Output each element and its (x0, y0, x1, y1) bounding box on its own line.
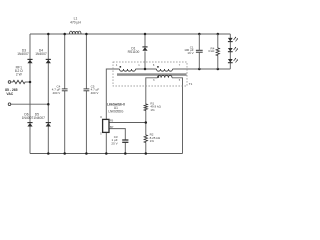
input terminal N (8, 103, 11, 106)
svg-text:RS1100: RS1100 (128, 50, 140, 54)
resistor R1 49.9k (144, 104, 147, 112)
node D4 top (47, 33, 50, 36)
wire BP pin to C3 (109, 129, 125, 140)
node C5 top (85, 33, 88, 36)
svg-text:LNK605DG: LNK605DG (108, 110, 123, 114)
node D1 anode / pins 1-8 (144, 68, 147, 71)
wire C3 to bottom bus (124, 142, 126, 153)
op IC U1 LNK605DG box (103, 119, 109, 132)
diode D5 1N4007 (46, 122, 51, 124)
wire C5 leg (85, 34, 87, 154)
wire AC line 2 (11, 103, 48, 105)
node RF1-bridge (29, 81, 32, 84)
svg-text:S: S (100, 132, 102, 136)
wire FB pin (109, 122, 146, 124)
node C1 top (198, 33, 201, 36)
wire secondary pin 6 down to R1 (146, 78, 158, 104)
wire RF1 to bridge (26, 81, 31, 83)
svg-text:3 kΩ: 3 kΩ (208, 49, 215, 53)
resistor RF1 (13, 80, 26, 83)
capacitor C3 (122, 139, 128, 141)
wire R2 to bottom bus (145, 143, 147, 154)
LED LED1 (228, 38, 233, 41)
node D5 bottom (47, 152, 50, 155)
T1 primary winding pins 4-1 (120, 69, 136, 71)
input terminal L (8, 81, 11, 84)
T1 secondary polarity dot (158, 76, 160, 78)
wire primary to D1 node to pin 8 (136, 68, 157, 70)
svg-text:400 V: 400 V (91, 91, 99, 95)
svg-text:T1: T1 (189, 82, 193, 86)
capacitor C1 (196, 49, 203, 51)
wire left bridge leg (29, 34, 31, 154)
wire pin 7 to output return (173, 68, 231, 70)
node U1 source bottom (105, 152, 108, 155)
svg-text:1N4007: 1N4007 (35, 52, 47, 56)
svg-text:400 V: 400 V (52, 91, 60, 95)
node C3 bottom (124, 152, 127, 155)
svg-text:1N4007: 1N4007 (33, 116, 45, 120)
node C1 bottom (198, 68, 201, 71)
transformer T1 dashed box (113, 62, 187, 86)
svg-text:D: D (100, 115, 102, 119)
node FB-R1-R2 (145, 121, 148, 124)
capacitor C4 (62, 88, 68, 90)
wire top bus (30, 33, 230, 35)
wire C1 leg (198, 34, 200, 69)
wire C4 leg (64, 34, 66, 154)
svg-text:1N4007: 1N4007 (17, 52, 29, 56)
capacitor C5 (84, 88, 90, 90)
wire bottom bus (30, 153, 183, 155)
svg-text:1%: 1% (150, 108, 155, 112)
svg-text:16 V: 16 V (187, 51, 193, 55)
T1 bias winding pins 8-7 (157, 69, 173, 71)
LED LED2 (228, 48, 233, 51)
T1 core (117, 73, 187, 76)
diode D3 1N4007 (27, 58, 32, 60)
T1 primary polarity dot (120, 66, 122, 68)
wire R1 to FB node (145, 111, 147, 135)
wire secondary pin 5 down to bottom bus (172, 78, 183, 154)
wire R4 leg (217, 34, 219, 69)
node R2 bottom (145, 152, 148, 155)
wire U1 drain to transformer pin 4 (106, 69, 119, 119)
inductor L1 470uH (70, 31, 82, 34)
node R4 bottom (217, 68, 220, 71)
resistor R2 8.25k (144, 135, 147, 144)
node AC2-bridge (47, 103, 50, 106)
wire U1 source to bottom bus (105, 132, 107, 153)
diode D4 1N4007 (46, 58, 51, 60)
node C4 bottom (63, 152, 66, 155)
svg-text:FB: FB (110, 119, 114, 123)
wire D1 branch (144, 34, 146, 69)
diode D1 RS1100 (142, 46, 147, 48)
svg-text:1%: 1% (150, 139, 155, 143)
T1 bias polarity dot (157, 66, 159, 68)
node C4 top (63, 33, 66, 36)
svg-text:1N4007: 1N4007 (22, 116, 34, 120)
svg-text:2 W: 2 W (16, 73, 23, 77)
svg-text:VAC: VAC (6, 92, 13, 96)
svg-text:470 µH: 470 µH (70, 20, 81, 24)
node C5 bottom (85, 152, 88, 155)
wire right bridge leg (47, 34, 49, 154)
svg-text:25 V: 25 V (111, 142, 117, 146)
resistor R4 3k (216, 48, 219, 57)
wire LED string column (229, 34, 231, 69)
node D1 top (144, 33, 147, 36)
T1 secondary winding pins 6-5 (158, 75, 173, 78)
svg-text:BP: BP (110, 125, 114, 129)
diode D6 1N4007 (27, 122, 32, 124)
LED LED3 (228, 59, 233, 62)
node R4 top (217, 33, 220, 36)
